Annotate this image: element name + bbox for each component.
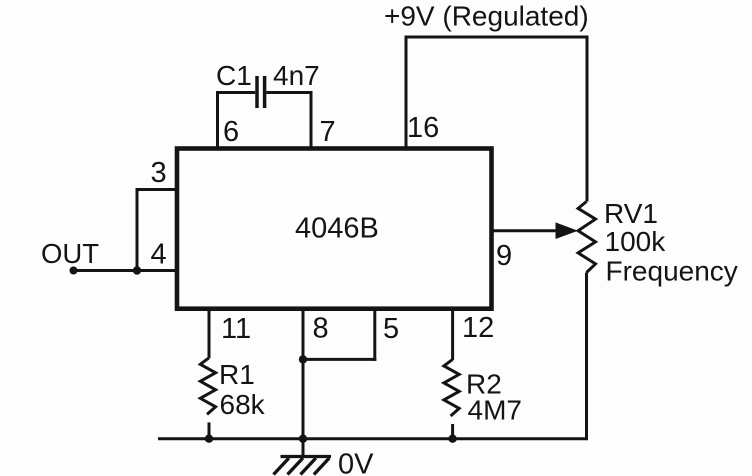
svg-text:9: 9 [496,240,512,272]
svg-text:+9V (Regulated): +9V (Regulated) [384,1,589,32]
svg-text:6: 6 [223,116,239,148]
svg-text:3: 3 [151,157,167,189]
wire pin 12 lead [451,307,454,360]
svg-text:11: 11 [221,313,251,345]
node pin3/pin4 junction [133,266,141,274]
node OUT terminal [70,267,78,275]
svg-text:16: 16 [407,112,439,144]
wire pin 9 wiper [491,229,558,232]
svg-text:4n7: 4n7 [273,60,320,91]
wire OUT to pin 4 [74,269,180,272]
capacitor C1 [257,76,265,108]
wire pin 5 to pin 8 link [303,358,376,361]
wiper arrowhead [556,222,579,239]
node pin5/pin8 junction [299,355,307,363]
svg-text:7: 7 [320,116,336,148]
wire pin 6 riser [216,91,219,150]
svg-text:4046B: 4046B [295,213,379,245]
node pin8 rail junction [299,435,307,443]
svg-text:100k: 100k [605,226,667,257]
wire C1 right lead [266,91,312,94]
wire pin16 supply drop [405,36,408,151]
svg-text:C1: C1 [216,60,252,91]
svg-text:8: 8 [313,313,329,345]
wire RV1 bottom to 0V rail [158,273,587,439]
svg-text:RV1: RV1 [604,198,658,229]
svg-text:OUT: OUT [41,238,99,269]
wire pin 7 riser [310,91,313,150]
svg-text:5: 5 [383,313,399,345]
svg-text:12: 12 [462,312,494,344]
svg-text:68k: 68k [220,389,266,420]
ground [274,457,332,475]
wire RV1 top drop [586,36,589,202]
wire R1 bottom lead [208,422,211,438]
wire R2 bottom lead [451,424,454,439]
potentiometer RV1 [578,202,595,273]
wire pin 3 stub [137,188,180,191]
wire pin 5 lead [373,307,376,361]
wire pin3 to pin4 link [136,188,139,271]
IC U1 4046B [177,149,492,309]
svg-text:0V: 0V [338,449,374,476]
node R1 rail junction [205,435,213,443]
resistor R2 [444,359,459,416]
node R2 rail junction [448,435,456,443]
wire +9V top rail [406,36,589,39]
wire pin 11 lead [208,307,211,358]
svg-text:4M7: 4M7 [468,395,522,426]
wire C1 left lead [216,91,255,94]
wire pin 8 lead to ground [302,307,305,457]
svg-text:Frequency: Frequency [606,256,738,287]
resistor R1 [200,358,215,415]
svg-text:4: 4 [151,239,167,271]
svg-text:R1: R1 [219,359,255,390]
